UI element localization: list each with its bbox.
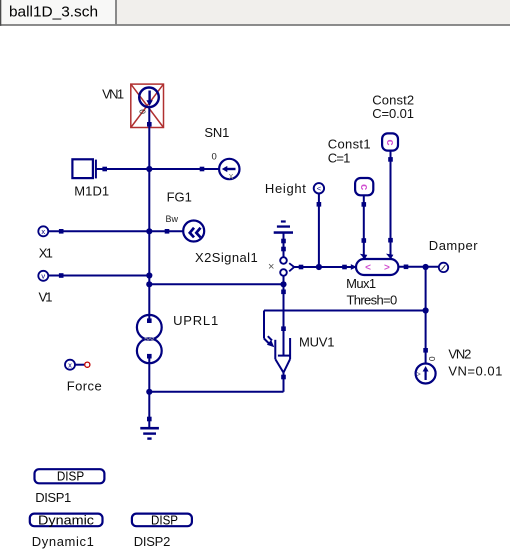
svg-text:0: 0 — [212, 152, 217, 163]
svg-text:DISP: DISP — [151, 513, 178, 527]
svg-text:<: < — [365, 263, 371, 274]
svg-text:VN1: VN1 — [102, 87, 124, 102]
svg-text:M1D1: M1D1 — [74, 184, 109, 199]
svg-text:Const1: Const1 — [328, 137, 371, 152]
svg-text:DISP: DISP — [57, 469, 84, 483]
svg-text:x: x — [68, 361, 72, 370]
svg-text:0: 0 — [137, 109, 147, 114]
svg-text:DISP2: DISP2 — [134, 534, 171, 549]
svg-text:×: × — [268, 261, 274, 273]
svg-text:DISP1: DISP1 — [35, 490, 71, 505]
svg-text:VN2: VN2 — [448, 347, 471, 362]
svg-text:x: x — [41, 227, 45, 236]
svg-text:v: v — [41, 272, 45, 281]
svg-text:X1: X1 — [39, 246, 53, 261]
svg-text:V1: V1 — [39, 290, 53, 305]
svg-text:Dynamic1: Dynamic1 — [32, 534, 94, 549]
svg-text:SN1: SN1 — [204, 125, 229, 140]
svg-text:Damper: Damper — [429, 238, 478, 253]
svg-text:ball1D_3.sch: ball1D_3.sch — [9, 4, 98, 21]
svg-text:<: < — [317, 184, 322, 193]
svg-text:Force: Force — [67, 379, 102, 394]
svg-text:UPRL1: UPRL1 — [173, 313, 218, 328]
svg-text:C=0.01: C=0.01 — [372, 106, 414, 121]
svg-text:X2Signal1: X2Signal1 — [195, 250, 258, 265]
svg-text:c: c — [358, 184, 370, 190]
svg-text:>: > — [384, 263, 390, 274]
svg-text:Dynamic: Dynamic — [38, 513, 94, 527]
svg-text:Thresh=0: Thresh=0 — [347, 293, 398, 308]
svg-text:Bw: Bw — [166, 214, 179, 224]
svg-text:Mux1: Mux1 — [346, 276, 376, 291]
svg-text:x: x — [229, 171, 234, 181]
svg-text:VN=0.01: VN=0.01 — [448, 364, 502, 379]
svg-text:>: > — [416, 369, 421, 378]
svg-text:MUV1: MUV1 — [299, 335, 335, 350]
svg-text:FG1: FG1 — [167, 189, 192, 204]
svg-text:Height: Height — [265, 181, 306, 196]
svg-text:0: 0 — [427, 356, 437, 361]
svg-text:C=1: C=1 — [328, 151, 351, 166]
svg-text:c: c — [384, 140, 396, 146]
